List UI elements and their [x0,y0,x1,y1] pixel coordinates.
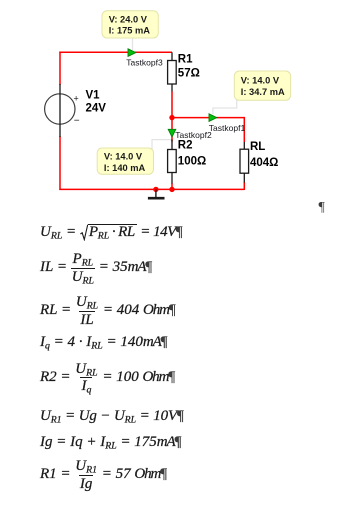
svg-text:V: 14.0 V: V: 14.0 V [104,152,143,162]
callout line from box V:24.0V to probe Tastkopf3 [132,37,134,50]
equation 4: Iq = 4*I_RL = 140mA [40,334,167,351]
wire left lower (V1 branch) [59,136,61,190]
equation 8: R1 = U_R1/Ig = 57 Ohm [40,459,167,491]
equation 2: IL = P_RL/U_RL = 35mA [40,252,152,284]
svg-text:Tastkopf1: Tastkopf1 [209,123,246,133]
svg-text:V: 14.0 V: V: 14.0 V [241,76,280,86]
svg-text:+: + [74,94,79,104]
ground [148,189,165,198]
resistor R1 [168,52,177,91]
junction node ground [153,187,158,192]
paragraph mark after schematic image [319,200,325,216]
probe Tastkopf1 arrow [209,114,217,122]
svg-text:I: 140 mA: I: 140 mA [104,163,146,173]
svg-text:R2: R2 [178,140,193,152]
svg-text:404Ω: 404Ω [250,157,278,169]
callout line from box V:14.0V/34.7mA to probe Tastkopf1 [213,99,237,114]
callout line from box V:14.0V/140mA to probe Tastkopf2 [152,140,172,149]
resistor R2 [168,140,177,184]
svg-text:I: 175 mA: I: 175 mA [109,26,151,36]
svg-text:RL: RL [250,141,265,153]
svg-text:I: 34.7 mA: I: 34.7 mA [241,87,285,97]
svg-text:V: 24.0 V: V: 24.0 V [109,14,148,24]
wire RL bottom [243,182,245,190]
equation 7: Ig = Iq + I_RL = 175mA [40,434,181,451]
equation 5: R2 = U_RL/Iq = 100 Ohm [40,362,175,394]
svg-text:−: − [74,116,80,127]
probe Tastkopf3 arrow [128,49,136,57]
svg-text:Tastkopf2: Tastkopf2 [175,130,212,140]
junction node R2 bottom [169,187,174,192]
measurement box V:14.0V I:140mA [97,148,153,174]
wire bottom [59,188,244,190]
measurement box V:24.0V I:175mA [102,11,158,38]
wire junction to R2 top [171,118,173,142]
svg-text:100Ω: 100Ω [178,156,206,168]
wire left upper (V1 branch) [59,52,61,85]
svg-text:R1: R1 [178,54,193,66]
wire R2 bottom [171,183,173,190]
equation 6: U_R1 = Ug - U_RL = 10V [40,408,184,425]
wire top (V1 to R1) [59,51,172,53]
svg-text:V1: V1 [86,90,101,102]
equation 3: RL = U_RL/IL = 404 Ohm [40,295,176,327]
measurement box V:14.0V I:34.7mA [234,71,290,100]
circuit schematic image area [0,0,348,215]
wire RL top [243,117,245,142]
equation 1: U_RL = sqrt(P_RL*RL) = 14V [40,224,182,241]
junction node (R1/R2/RL) [169,115,174,120]
svg-text:57Ω: 57Ω [178,68,200,80]
probe Tastkopf2 arrow [168,129,176,137]
voltage source V1 [45,84,80,137]
svg-text:Tastkopf3: Tastkopf3 [126,57,163,67]
resistor RL [240,142,249,183]
wire R1 bottom to junction [171,92,173,119]
svg-text:24V: 24V [86,103,107,115]
wire middle (junction to RL) [172,117,244,119]
